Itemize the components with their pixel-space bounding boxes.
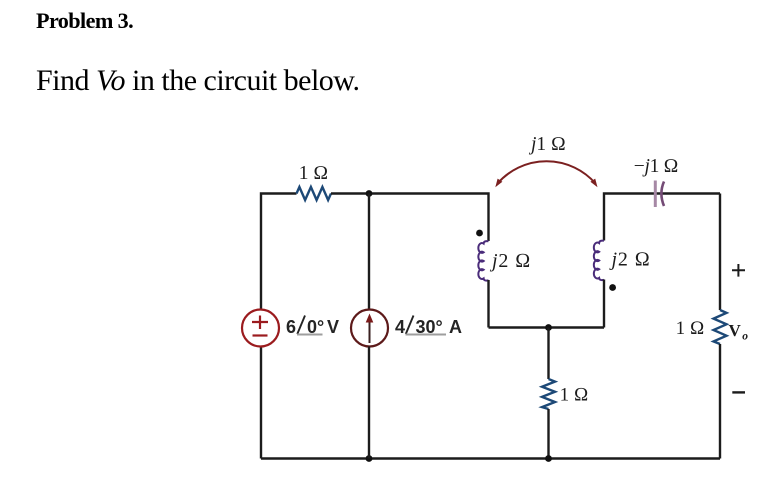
node junction bottom middle (548.5,458.5) bbox=[545, 455, 552, 462]
svg-text:A: A bbox=[449, 317, 462, 337]
wire capacitor to right corner down to Vo resistor bbox=[719, 194, 721, 311]
label 4/30 A bbox=[395, 316, 462, 338]
wire top from R1 to left inductor bbox=[331, 194, 489, 242]
svg-text:Find Vo in the circuit below.: Find Vo in the circuit below. bbox=[36, 64, 360, 97]
wire current branch bottom bbox=[368, 347, 370, 459]
capacitor C1 -j1ohm bbox=[655, 181, 664, 208]
voltage source plus-minus symbol bbox=[252, 316, 268, 336]
svg-text:j2 Ω: j2 Ω bbox=[609, 249, 651, 271]
label j1ohm bbox=[528, 134, 566, 155]
label minus Vo bbox=[732, 391, 745, 393]
wire current branch top bbox=[368, 194, 370, 310]
label 6/0 V bbox=[286, 316, 339, 338]
coupling dot L2 bbox=[609, 284, 616, 291]
svg-text:1 Ω: 1 Ω bbox=[299, 163, 329, 184]
label Vo bbox=[729, 321, 749, 343]
node junction top (369,193.5) bbox=[366, 190, 373, 197]
svg-text:V: V bbox=[327, 317, 339, 337]
current source I1 circle bbox=[351, 310, 388, 347]
resistor R1 1ohm horizontal bbox=[297, 187, 332, 200]
wire right inductor top lead and top wire to capacitor bbox=[604, 194, 720, 241]
svg-text:4: 4 bbox=[395, 317, 405, 337]
svg-text:Problem 3.: Problem 3. bbox=[36, 8, 133, 33]
svg-text:1 Ω: 1 Ω bbox=[560, 385, 589, 406]
title "Problem 3." bbox=[36, 8, 133, 33]
svg-text:6: 6 bbox=[286, 317, 296, 337]
node junction middle (548.5,327.5) bbox=[545, 324, 552, 331]
current source arrow bbox=[366, 314, 374, 344]
node junction bottom left (369,458.5) bbox=[366, 455, 373, 462]
label -j1ohm bbox=[634, 156, 679, 177]
wire left branch bottom bbox=[260, 347, 262, 459]
mutual inductance arc j1ohm bbox=[495, 161, 597, 187]
wire middle vertical bottom lead bbox=[547, 409, 549, 459]
svg-text:−j1 Ω: −j1 Ω bbox=[634, 156, 679, 177]
wire left branch top bbox=[261, 194, 297, 310]
wire middle vertical top lead bbox=[547, 328, 549, 380]
label 1ohm bottom middle bbox=[560, 385, 589, 406]
label j2ohm left bbox=[489, 250, 531, 272]
label 1ohm right bbox=[676, 318, 705, 339]
voltage source V1 circle bbox=[242, 310, 279, 347]
svg-text:j1 Ω: j1 Ω bbox=[528, 134, 566, 155]
wire L2 bottom lead bbox=[603, 280, 605, 328]
wire middle bottom horizontal bbox=[489, 326, 605, 328]
wire L1 bottom lead bbox=[487, 280, 489, 328]
wire bottom bbox=[261, 457, 720, 459]
label plus Vo bbox=[732, 264, 745, 277]
inductor L1 j2ohm bbox=[478, 241, 488, 281]
wire right bottom bbox=[719, 344, 721, 459]
subtitle "Find Vo in the circuit below." bbox=[36, 64, 360, 97]
label j2ohm right bbox=[609, 249, 651, 271]
coupling dot L1 bbox=[476, 230, 483, 237]
resistor R2 1ohm vertical middle bbox=[542, 379, 555, 409]
inductor L2 j2ohm bbox=[594, 241, 604, 281]
svg-text:1 Ω: 1 Ω bbox=[676, 318, 705, 339]
svg-text:j2 Ω: j2 Ω bbox=[489, 250, 531, 272]
resistor R3 1ohm vertical right (Vo) bbox=[714, 310, 727, 344]
label 1ohm top-left bbox=[299, 163, 329, 184]
